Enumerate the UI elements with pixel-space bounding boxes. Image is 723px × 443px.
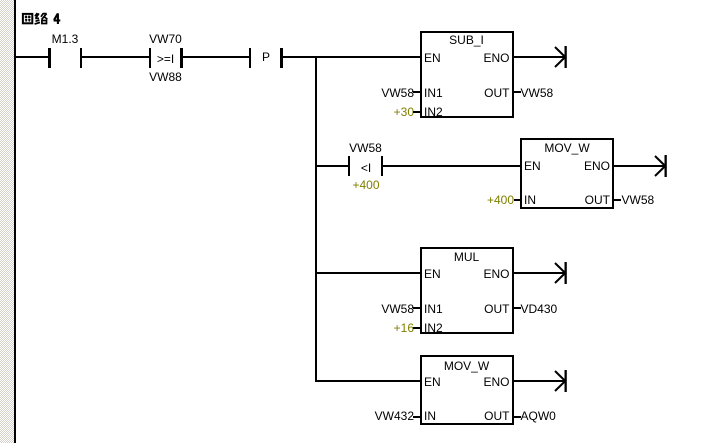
wire: M1.3 to compare contact bbox=[82, 56, 149, 58]
arrow terminator 3 bbox=[553, 262, 568, 284]
label M1.3 bbox=[52, 33, 79, 45]
pin IN1 bbox=[424, 303, 443, 315]
constant +400 bbox=[352, 179, 379, 191]
vertical branch rail bbox=[315, 56, 317, 382]
label VW58 bbox=[349, 142, 382, 154]
compare contact >=I left bar bbox=[149, 48, 152, 68]
box MOV_W (2) bbox=[420, 355, 514, 425]
pin ENO bbox=[584, 160, 610, 172]
compare operator >=I bbox=[157, 53, 174, 65]
contact M1.3 right bar bbox=[80, 48, 83, 68]
pin IN2 bbox=[424, 322, 443, 334]
pin IN bbox=[424, 410, 436, 422]
wire: compare to P contact bbox=[183, 56, 249, 58]
box MOV_W (1) bbox=[520, 138, 614, 209]
label VW70 bbox=[149, 33, 182, 45]
pin OUT bbox=[484, 410, 509, 422]
title MUL bbox=[454, 251, 479, 263]
label P bbox=[262, 51, 270, 63]
operand VW58 at OUT bbox=[622, 194, 655, 206]
title SUB_I bbox=[449, 34, 484, 46]
wire: P contact to SUB_I block EN bbox=[283, 56, 420, 58]
tick IN bbox=[413, 416, 420, 418]
operand VW58 at IN1 bbox=[381, 87, 414, 99]
tick IN1 bbox=[413, 307, 420, 309]
operand VW58 at OUT bbox=[521, 87, 554, 99]
box SUB_I bbox=[420, 31, 514, 118]
operand VW58 at IN1 bbox=[381, 303, 414, 315]
box MUL bbox=[420, 247, 514, 334]
pin ENO bbox=[483, 268, 509, 280]
contact P right bar bbox=[280, 48, 283, 68]
pin EN bbox=[524, 160, 541, 172]
pin EN bbox=[424, 376, 441, 388]
pin IN bbox=[524, 194, 536, 206]
constant +16 at IN2 bbox=[394, 322, 414, 334]
wire ENO to arrow bbox=[614, 165, 665, 167]
arrow terminator 2 bbox=[653, 155, 668, 177]
pin IN2 bbox=[424, 106, 443, 118]
compare operator <I bbox=[361, 162, 371, 174]
title MOV_W bbox=[444, 360, 489, 372]
operand VD430 at OUT bbox=[521, 303, 558, 315]
wire: rail to compare contact bbox=[317, 165, 348, 167]
compare contact <I left bar bbox=[348, 156, 351, 176]
tick OUT bbox=[514, 307, 521, 309]
wire ENO to arrow bbox=[514, 380, 565, 382]
tick IN2 bbox=[413, 327, 420, 329]
compare contact <I right bar bbox=[381, 156, 384, 176]
tick IN2 bbox=[413, 111, 420, 113]
pin ENO bbox=[483, 52, 509, 64]
tick OUT bbox=[614, 199, 621, 201]
wire: contact to MOV_W box bbox=[383, 165, 520, 167]
pin OUT bbox=[484, 87, 509, 99]
wire ENO to arrow bbox=[514, 272, 565, 274]
wire: rail to MUL box bbox=[317, 272, 421, 274]
arrow terminator 4 bbox=[553, 370, 568, 392]
pin OUT bbox=[585, 194, 610, 206]
wire ENO to arrow bbox=[514, 56, 565, 58]
pin OUT bbox=[484, 303, 509, 315]
title MOV_W bbox=[544, 142, 589, 154]
tick IN1 bbox=[413, 91, 420, 93]
operand AQW0 at OUT bbox=[521, 410, 556, 422]
wire: rail to contact M1.3 bbox=[16, 56, 48, 58]
compare contact >=I right bar bbox=[180, 48, 183, 68]
tick OUT bbox=[514, 91, 521, 93]
scrollbar-style dithered left margin strip bbox=[0, 0, 14, 443]
pin EN bbox=[424, 268, 441, 280]
pin EN bbox=[424, 52, 441, 64]
network title 网络 4 bbox=[20, 12, 64, 25]
contact M1.3 left bar bbox=[48, 48, 51, 68]
tick IN bbox=[514, 199, 521, 201]
wire: rail to MOV_W box bbox=[317, 380, 421, 382]
constant +400 at IN bbox=[487, 194, 514, 206]
contact P left bar bbox=[249, 48, 252, 68]
tick OUT bbox=[514, 416, 521, 418]
arrow terminator 1 bbox=[553, 46, 568, 68]
pin IN1 bbox=[424, 87, 443, 99]
left power rail bbox=[14, 0, 16, 443]
operand VW432 at IN bbox=[375, 410, 414, 422]
pin ENO bbox=[483, 376, 509, 388]
constant +30 at IN2 bbox=[394, 106, 414, 118]
label VW88 bbox=[149, 71, 182, 83]
